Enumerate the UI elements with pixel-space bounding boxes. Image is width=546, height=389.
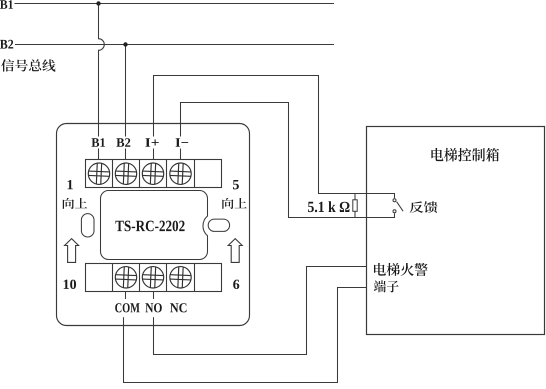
mounting slot left (vertical capsule) (81, 214, 94, 237)
mounting slot right (horizontal capsule) (208, 219, 229, 231)
wire B1 drop to terminal B1 with hop over B2 (99, 4, 105, 160)
label signal bus 信号总线 (1, 59, 55, 71)
terminal strip bottom (86, 264, 222, 292)
wire NO to box upper terminal (154, 267, 367, 355)
module TS-RC-2202 outline (57, 124, 250, 326)
label xiangshang left (63, 198, 87, 209)
label pin 1 (68, 180, 73, 189)
screw terminal I- (170, 163, 191, 184)
screw terminal B1 (88, 163, 109, 184)
wire I- loop to switch bottom (181, 103, 395, 218)
label TS-RC-2202 (115, 221, 184, 232)
label pin 5 (233, 180, 239, 189)
label feedback 反馈 (410, 201, 438, 213)
node junction dot on B1 (96, 1, 100, 5)
label I+ terminal (145, 137, 160, 149)
label B2 bus (0, 40, 13, 49)
up arrow right (228, 239, 242, 263)
wire B2 bus line (15, 44, 334, 46)
module center plate with right notch (101, 191, 208, 260)
node junction dot on B2 (123, 42, 127, 46)
wire resistor branch (354, 194, 356, 218)
screw terminal B2 (115, 163, 136, 184)
screw terminal I+ (142, 163, 163, 184)
wire I+ loop to switch top (154, 76, 395, 199)
resistor body 5.1k (353, 200, 357, 212)
switch contact bottom circle (393, 210, 396, 213)
label pin 10 (64, 280, 76, 289)
label background for COM NO NC (108, 299, 192, 317)
screw terminal NO (142, 267, 163, 288)
label control box 电梯控制箱 (431, 148, 499, 162)
label B1 terminal (90, 137, 107, 149)
label elevator fire 电梯火警 (374, 263, 428, 276)
wire B1 bus line (15, 3, 335, 5)
screw terminal COM (115, 267, 136, 288)
switch contact top circle (393, 199, 396, 202)
label NO (145, 303, 161, 312)
label 5.1 k ohm (308, 201, 349, 212)
terminal strip top (86, 160, 222, 188)
wire COM stub below terminal (125, 292, 127, 301)
wire B2 drop to terminal B2 (125, 45, 127, 160)
label COM (115, 303, 139, 312)
label B1 bus (0, 0, 13, 9)
label NC (170, 303, 186, 312)
control box outline (367, 127, 545, 335)
switch blade (397, 202, 404, 212)
label terminals 端子 (374, 280, 399, 292)
wire COM to box lower terminal (124, 288, 367, 383)
screw terminal NC (170, 267, 191, 288)
up arrow left (65, 239, 79, 263)
label I- terminal (173, 137, 188, 149)
label B2 terminal (116, 137, 134, 149)
label xiangshang right (222, 198, 247, 209)
label pin 6 (233, 280, 239, 289)
